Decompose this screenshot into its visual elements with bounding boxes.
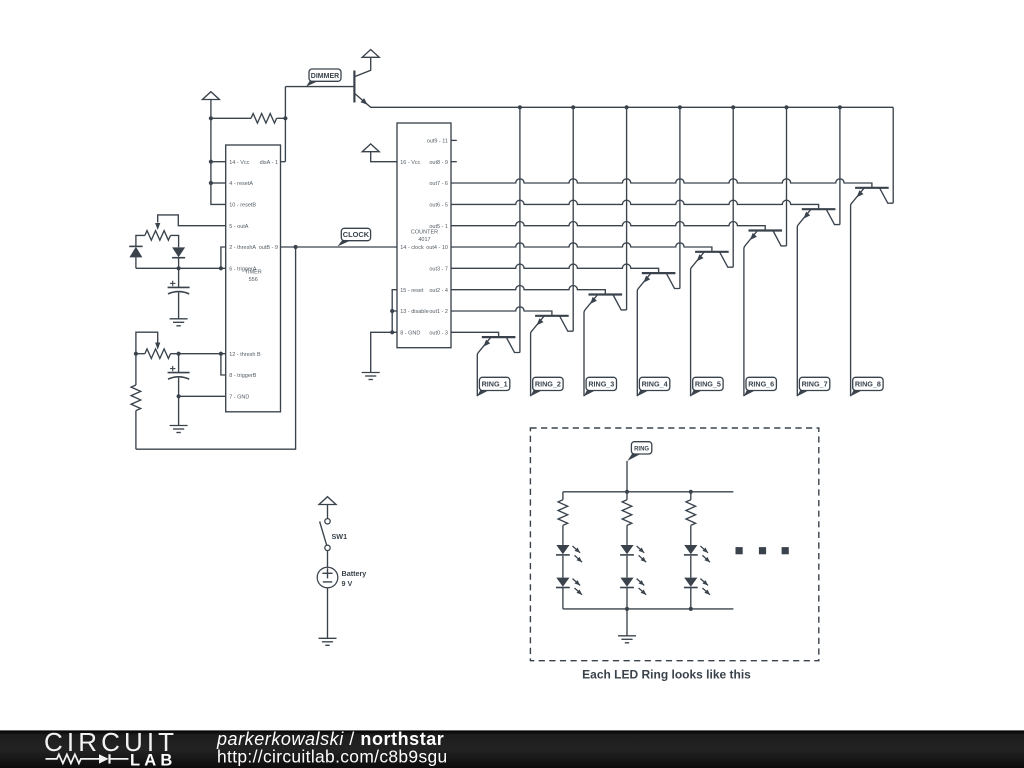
svg-text:15 - reset: 15 - reset: [400, 288, 424, 294]
svg-text:out3 - 7: out3 - 7: [429, 267, 448, 273]
svg-text:RING_8: RING_8: [855, 380, 881, 389]
svg-text:RING_4: RING_4: [642, 380, 668, 389]
svg-text:SW1: SW1: [332, 532, 348, 541]
svg-text:5 - outA: 5 - outA: [229, 224, 249, 230]
svg-text:out2 - 4: out2 - 4: [429, 288, 448, 294]
svg-text:out8 - 9: out8 - 9: [429, 160, 448, 166]
svg-text:LAB: LAB: [130, 751, 177, 768]
svg-text:9 V: 9 V: [342, 579, 353, 588]
svg-text:14 - clock: 14 - clock: [400, 245, 424, 251]
svg-text:CLOCK: CLOCK: [343, 230, 370, 239]
svg-text:out1 - 2: out1 - 2: [429, 309, 448, 315]
svg-text:4 - resetA: 4 - resetA: [229, 181, 253, 187]
svg-text:Each LED Ring looks like this: Each LED Ring looks like this: [582, 667, 751, 681]
svg-text:out9 - 11: out9 - 11: [427, 139, 448, 145]
svg-text:13 - disable: 13 - disable: [400, 309, 428, 315]
svg-text:out0 - 3: out0 - 3: [429, 331, 448, 337]
svg-text:7 - GND: 7 - GND: [229, 395, 249, 401]
svg-text:4017: 4017: [418, 237, 430, 243]
svg-text:disA - 1: disA - 1: [260, 160, 278, 166]
svg-text:10 - resetB: 10 - resetB: [229, 203, 256, 209]
svg-text:RING_2: RING_2: [535, 380, 561, 389]
svg-text:COUNTER: COUNTER: [411, 230, 438, 236]
svg-text:2 - threshA: 2 - threshA: [229, 245, 256, 251]
svg-text:8 - GND: 8 - GND: [400, 331, 420, 337]
svg-text:DIMMER: DIMMER: [311, 73, 339, 80]
svg-text:outB - 9: outB - 9: [259, 245, 278, 251]
svg-text:556: 556: [249, 277, 258, 283]
svg-text:out7 - 6: out7 - 6: [429, 181, 448, 187]
svg-text:12 - thresh B: 12 - thresh B: [229, 352, 261, 358]
svg-text:8 - triggerB: 8 - triggerB: [229, 373, 257, 379]
svg-text:out6 - 5: out6 - 5: [429, 203, 448, 209]
svg-text:RING: RING: [634, 446, 649, 452]
svg-text:RING_5: RING_5: [695, 380, 721, 389]
svg-text:14 - Vcc: 14 - Vcc: [229, 160, 249, 166]
svg-text:Battery: Battery: [342, 569, 367, 578]
svg-text:16 - Vcc: 16 - Vcc: [400, 160, 420, 166]
svg-text:RING_7: RING_7: [802, 380, 828, 389]
svg-text:RING_6: RING_6: [748, 380, 774, 389]
svg-text:RING_1: RING_1: [482, 380, 508, 389]
svg-text:RING_3: RING_3: [588, 380, 614, 389]
svg-text:http://circuitlab.com/c8b9sgu: http://circuitlab.com/c8b9sgu: [217, 747, 448, 767]
svg-text:out4 - 10: out4 - 10: [426, 245, 448, 251]
svg-text:TIMER: TIMER: [245, 270, 262, 276]
